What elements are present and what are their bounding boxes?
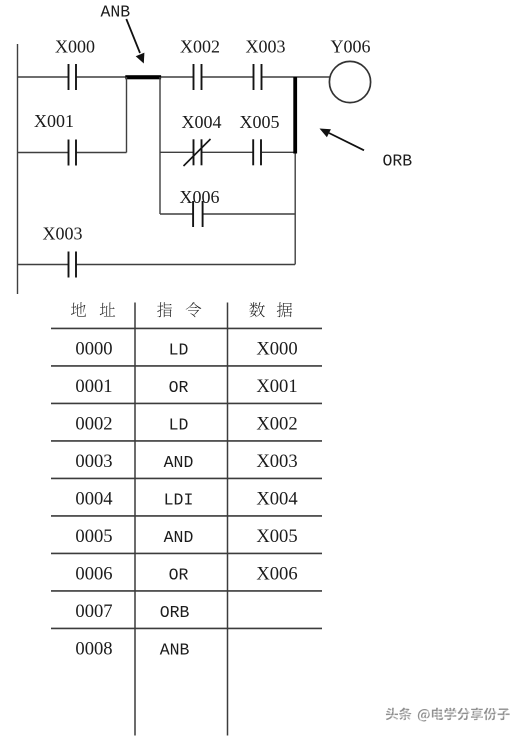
svg-text:0002: 0002	[75, 413, 112, 434]
svg-text:0004: 0004	[75, 488, 112, 509]
table row 0008	[75, 638, 189, 659]
svg-text:0006: 0006	[75, 563, 112, 584]
svg-text:LD: LD	[169, 415, 189, 434]
contact X002	[180, 37, 220, 90]
svg-text:OR: OR	[169, 565, 189, 584]
svg-text:X003: X003	[256, 451, 297, 472]
coil Y006	[329, 37, 370, 103]
svg-text:X005: X005	[256, 526, 297, 547]
table row 0005	[75, 526, 297, 547]
ORB thick block junction	[293, 77, 297, 154]
svg-text:X005: X005	[240, 112, 280, 132]
svg-text:X006: X006	[180, 187, 220, 207]
svg-text:X000: X000	[55, 37, 95, 57]
table header 地址 指令 数据	[71, 302, 292, 317]
contact X003 top	[246, 37, 286, 90]
svg-text:AND: AND	[164, 528, 194, 547]
wire rung2 (X001 branch)	[18, 77, 127, 153]
wire parallel block left vertical	[159, 77, 161, 214]
contact X003 bottom	[43, 224, 83, 278]
svg-text:0001: 0001	[75, 376, 112, 397]
left power rail	[17, 44, 19, 294]
instruction table grid	[51, 328, 322, 628]
svg-text:X004: X004	[182, 112, 222, 132]
table row 0000	[75, 338, 297, 359]
table row 0001	[75, 376, 297, 397]
contact X004 (NC)	[182, 112, 222, 166]
svg-text:X002: X002	[180, 37, 220, 57]
ANB thick block junction	[125, 75, 161, 79]
wire rung1	[18, 76, 330, 78]
wire right vertical bus	[294, 77, 296, 265]
table row 0004	[75, 488, 297, 509]
contact X006	[180, 187, 220, 227]
svg-text:X003: X003	[246, 37, 286, 57]
wire rung4 (X003 branch)	[18, 264, 296, 266]
svg-text:ORB: ORB	[383, 151, 413, 170]
table row 0007	[75, 601, 189, 622]
wire X006 branch	[160, 213, 295, 215]
svg-text:X001: X001	[34, 111, 74, 131]
svg-text:0003: 0003	[75, 451, 112, 472]
contact X000	[55, 37, 95, 90]
svg-text:0005: 0005	[75, 526, 112, 547]
watermark 头条@电学分享份子	[386, 708, 511, 723]
table row 0002	[75, 413, 297, 434]
svg-text:X002: X002	[256, 413, 297, 434]
ANB arrow	[126, 19, 144, 64]
svg-text:ORB: ORB	[160, 603, 190, 622]
contact X001	[34, 111, 76, 166]
svg-text:ANB: ANB	[160, 640, 190, 659]
svg-text:AND: AND	[164, 453, 194, 472]
svg-text:X001: X001	[256, 376, 297, 397]
svg-text:0007: 0007	[75, 601, 112, 622]
contact X005	[240, 112, 280, 165]
svg-text:LDI: LDI	[164, 490, 194, 509]
table row 0006	[75, 563, 297, 584]
svg-text:ANB: ANB	[101, 3, 131, 22]
svg-text:0000: 0000	[75, 338, 112, 359]
svg-text:X000: X000	[256, 338, 297, 359]
svg-text:LD: LD	[169, 340, 189, 359]
svg-text:Y006: Y006	[331, 37, 371, 57]
wire X004 X005 branch	[160, 151, 295, 153]
svg-text:X006: X006	[256, 563, 297, 584]
svg-text:X003: X003	[43, 224, 83, 244]
svg-text:X004: X004	[256, 488, 297, 509]
svg-text:0008: 0008	[75, 638, 112, 659]
ORB arrow	[320, 129, 365, 151]
svg-text:OR: OR	[169, 378, 189, 397]
table row 0003	[75, 451, 297, 472]
